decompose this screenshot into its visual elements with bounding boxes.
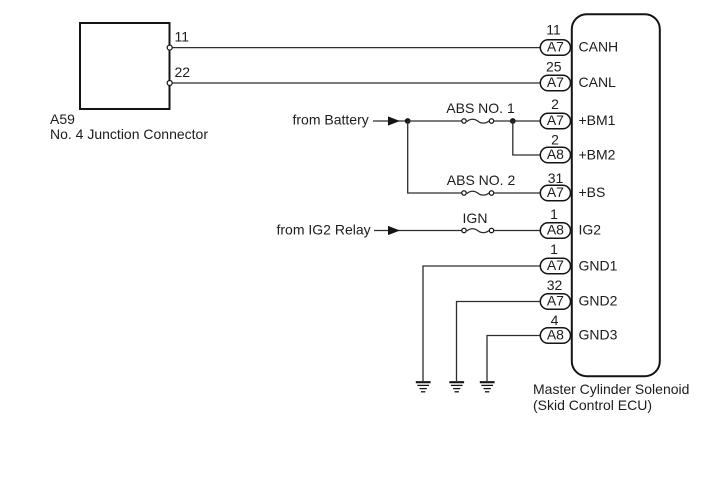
svg-text:4: 4 bbox=[551, 312, 559, 328]
terminal A8 GND3 bbox=[540, 327, 570, 344]
pin 22 terminal circle bbox=[167, 81, 172, 86]
svg-text:(Skid Control ECU): (Skid Control ECU) bbox=[533, 397, 652, 413]
svg-text:2: 2 bbox=[551, 96, 559, 112]
svg-text:No. 4 Junction Connector: No. 4 Junction Connector bbox=[50, 126, 208, 142]
wire fuse ABS NO.2 to +BS bbox=[494, 192, 541, 194]
arrow from IG2 Relay bbox=[388, 226, 400, 235]
node after fuse ABS NO.1 bbox=[510, 118, 516, 124]
label IGN bbox=[463, 210, 488, 226]
svg-text:+BS: +BS bbox=[579, 184, 606, 200]
svg-text:ABS NO. 2: ABS NO. 2 bbox=[447, 172, 516, 188]
svg-text:+BM2: +BM2 bbox=[579, 146, 616, 162]
svg-text:11: 11 bbox=[175, 29, 190, 45]
signal CANL bbox=[579, 74, 617, 90]
svg-text:11: 11 bbox=[546, 22, 561, 38]
fuse IGN bbox=[462, 228, 494, 232]
svg-text:CANL: CANL bbox=[579, 74, 617, 90]
signal IG2 bbox=[579, 222, 602, 238]
wire GND3 bbox=[487, 336, 541, 382]
ground G3 bbox=[480, 382, 495, 392]
svg-text:A7: A7 bbox=[547, 112, 564, 128]
label (Skid Control ECU) bbox=[533, 397, 652, 413]
svg-text:1: 1 bbox=[550, 241, 558, 257]
svg-text:ABS NO. 1: ABS NO. 1 bbox=[446, 100, 515, 116]
label A59 bbox=[50, 111, 75, 127]
svg-text:25: 25 bbox=[546, 58, 562, 74]
wire GND1 bbox=[423, 266, 541, 381]
svg-text:from IG2 Relay: from IG2 Relay bbox=[277, 222, 371, 238]
pin 11 label bbox=[175, 29, 190, 45]
label Master Cylinder Solenoid bbox=[533, 381, 689, 397]
svg-text:A7: A7 bbox=[547, 184, 564, 200]
pin number 4 bbox=[551, 312, 559, 328]
pin number 32 bbox=[547, 277, 563, 293]
svg-text:IGN: IGN bbox=[463, 210, 488, 226]
label No. 4 Junction Connector bbox=[50, 126, 208, 142]
svg-text:GND1: GND1 bbox=[579, 257, 618, 273]
pin number 1 bbox=[550, 206, 558, 222]
svg-text:A7: A7 bbox=[547, 257, 564, 273]
arrow from Battery bbox=[388, 116, 400, 125]
node battery junction bbox=[405, 118, 411, 124]
svg-text:A59: A59 bbox=[50, 111, 75, 127]
wire fuse IGN to IG2 bbox=[494, 230, 541, 232]
svg-text:GND2: GND2 bbox=[579, 293, 618, 309]
svg-text:A7: A7 bbox=[547, 293, 564, 309]
pin 22 label bbox=[175, 64, 191, 80]
svg-text:CANH: CANH bbox=[579, 39, 619, 55]
svg-text:32: 32 bbox=[547, 277, 563, 293]
pin number 11 bbox=[546, 22, 561, 38]
svg-text:31: 31 bbox=[548, 170, 564, 186]
svg-text:+BM1: +BM1 bbox=[579, 112, 616, 128]
wire battery junction to fuse ABS NO.1 bbox=[408, 120, 462, 122]
fuse ABS NO. 2 bbox=[462, 191, 494, 195]
terminal A7 +BS bbox=[540, 184, 570, 201]
terminal A7 GND1 bbox=[540, 257, 570, 274]
svg-text:Master Cylinder Solenoid: Master Cylinder Solenoid bbox=[533, 381, 689, 397]
svg-text:2: 2 bbox=[551, 131, 559, 147]
svg-text:A7: A7 bbox=[547, 74, 564, 90]
terminal A7 CANL bbox=[540, 74, 570, 91]
signal GND1 bbox=[579, 257, 618, 273]
wire branch down to +BS bbox=[408, 121, 462, 193]
svg-text:22: 22 bbox=[175, 64, 191, 80]
fuse ABS NO. 1 bbox=[462, 119, 494, 123]
signal +BM2 bbox=[579, 146, 616, 162]
signal +BM1 bbox=[579, 112, 616, 128]
pin number 1b bbox=[550, 241, 558, 257]
pin number 25 bbox=[546, 58, 562, 74]
junction connector A59 box bbox=[80, 23, 170, 109]
signal GND3 bbox=[579, 327, 618, 343]
wire from Battery feed bbox=[373, 120, 408, 122]
terminal A7 CANH bbox=[540, 39, 570, 56]
ECU connector body (Skid Control ECU) bbox=[572, 14, 660, 376]
ground G2 bbox=[449, 382, 464, 392]
terminal A7 GND2 bbox=[540, 293, 570, 310]
ground G1 bbox=[416, 382, 431, 392]
svg-text:1: 1 bbox=[550, 206, 558, 222]
svg-text:IG2: IG2 bbox=[579, 222, 602, 238]
svg-text:A8: A8 bbox=[547, 146, 564, 162]
pin number 31 bbox=[548, 170, 564, 186]
svg-text:A8: A8 bbox=[547, 327, 564, 343]
label ABS NO. 1 bbox=[446, 100, 515, 116]
label ABS NO. 2 bbox=[447, 172, 516, 188]
wire GND2 bbox=[457, 302, 541, 382]
signal +BS bbox=[579, 184, 606, 200]
signal CANH bbox=[579, 39, 619, 55]
terminal A8 +BM2 bbox=[540, 146, 570, 163]
wire fuse to +BM1 bbox=[494, 120, 541, 122]
label from IG2 Relay bbox=[277, 222, 371, 238]
svg-text:A8: A8 bbox=[547, 222, 564, 238]
wire CANL (pin 22 to A7) bbox=[172, 82, 541, 84]
wire branch down to +BM2 bbox=[513, 121, 541, 155]
label from Battery bbox=[293, 112, 369, 128]
terminal A8 IG2 bbox=[540, 222, 570, 239]
wire from IG2 Relay feed bbox=[374, 230, 462, 232]
wire CANH (pin 11 to A7) bbox=[172, 47, 541, 49]
pin number 2b bbox=[551, 131, 559, 147]
terminal A7 +BM1 bbox=[540, 112, 570, 129]
pin 11 terminal circle bbox=[167, 45, 172, 50]
svg-text:from Battery: from Battery bbox=[293, 112, 369, 128]
signal GND2 bbox=[579, 293, 618, 309]
svg-text:GND3: GND3 bbox=[579, 327, 618, 343]
pin number 2 bbox=[551, 96, 559, 112]
svg-text:A7: A7 bbox=[547, 39, 564, 55]
